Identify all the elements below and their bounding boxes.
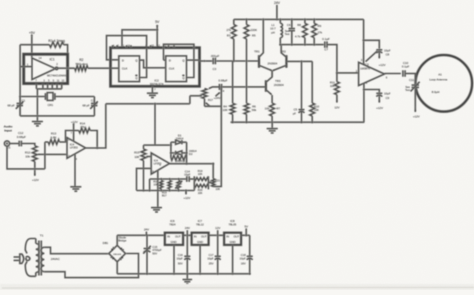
wire supply rail segment 1 [117, 234, 165, 237]
ground IC2 [147, 86, 158, 97]
scan edge artifacts [0, 284, 474, 290]
wire modulator bottom rail [137, 189, 195, 192]
wire IC5 output [170, 162, 215, 165]
wire supply rail segment 2 [183, 234, 192, 237]
wire audio bus to R17 wiper [190, 95, 202, 104]
wire secondary bottom loop [44, 254, 138, 278]
wire R15 bottom [142, 161, 145, 192]
resistor R1 4.7meg feedback [48, 39, 65, 47]
wire pin bus to ground [36, 89, 39, 121]
capacitor C14 10uF [184, 169, 191, 181]
capacitor C8 10uF [376, 48, 391, 67]
value label IC2 SN74LS74 [150, 79, 164, 86]
wire audio bus [106, 103, 190, 106]
diode D1 1N914 [171, 133, 187, 144]
diode D2 1N914 [171, 149, 197, 156]
capacitor C2 68pF trimmer [82, 97, 97, 116]
ic IC2 FF1 box [119, 56, 140, 82]
regulator IC8 78L05 [224, 219, 241, 245]
wire IC2 D2 entry [164, 56, 166, 60]
node +12V below R12 [32, 171, 39, 182]
ground oscillator [32, 122, 43, 126]
node 5V [244, 224, 248, 235]
transformer T1 secondary [41, 247, 60, 271]
wire C12 to R12 [21, 144, 34, 146]
wire bias riser [44, 142, 46, 169]
wire IC6 gnd [173, 245, 176, 275]
capacitor C15 4700uF [143, 235, 162, 273]
resistor R19 10K [162, 181, 171, 198]
ic IC2 box [111, 48, 200, 87]
wire R15 wiper to IC5 [146, 156, 151, 158]
ground common rail [267, 122, 278, 133]
transformer T1 core [39, 241, 41, 276]
wire IC2 Q2bar to D2 loop [164, 44, 194, 77]
resistor R2 560 ohm [75, 58, 88, 71]
pin 1 label IC1 [27, 63, 29, 67]
wire C7 to op-amp input [327, 45, 359, 75]
op-amp IC3 [359, 62, 385, 85]
node 12V [215, 226, 221, 235]
resistor R18 10K [153, 180, 163, 189]
ic IC2 FF2 box [166, 56, 187, 82]
pin 14 label IC1 [39, 56, 43, 60]
wire IC2 Q1bar internal [140, 48, 147, 78]
jack J1 [4, 141, 11, 150]
wire C3 to base divider [216, 60, 259, 63]
resistor R6 56k [244, 61, 257, 122]
capacitor C6 see text [285, 19, 295, 44]
resistor R3 27k [226, 19, 236, 61]
wire R1 top loop [20, 45, 68, 68]
wire IC1 input stub [20, 66, 32, 68]
wire branch to R15 [154, 104, 156, 145]
value label 2N3904 pair [267, 61, 278, 65]
wire IC2 output to C3 [187, 60, 213, 62]
wire supply bottom rail [117, 273, 251, 276]
wire IC2 CLK1 internal [111, 67, 119, 69]
label audio input [4, 125, 13, 133]
wire IC8 gnd [231, 245, 234, 275]
resistor R4 10K [223, 61, 235, 122]
wire modulator mid rail [150, 178, 195, 191]
arrow IC3 to C8 [366, 51, 378, 62]
node +12V antenna return [413, 107, 420, 119]
wire IC2 Q1bar to D1 loop [107, 36, 147, 60]
capacitor C3 .001uF [210, 54, 220, 71]
resistor R9 27k [312, 19, 323, 44]
plug AC [14, 254, 27, 263]
transistor TR2 2N3904 [273, 45, 287, 71]
wire TR2 base node [286, 60, 312, 63]
wire common rail [231, 121, 365, 124]
potentiometer R15 10K [134, 145, 146, 160]
inductor L1 10.7uH [270, 19, 282, 44]
wire R17 bottom to R21 [205, 86, 223, 187]
node 12V below R11 [334, 95, 340, 110]
wire C4 to TR3 base [222, 86, 266, 89]
wire IC1 output to R2 [58, 67, 75, 70]
node +5V supply for IC1 [29, 31, 36, 59]
resistor R14 27k feedback [66, 121, 99, 149]
wire R12 wiper [38, 154, 67, 156]
pin labels 7 3 5 9 11 13 [35, 79, 65, 82]
wire 24V rail [234, 18, 364, 21]
wire IC3 C8 branch [364, 40, 380, 48]
wire collector node rail [279, 43, 324, 46]
capacitor C9 10uF [376, 91, 391, 110]
node 5V supply for IC2 [155, 20, 160, 48]
pin labels IC4 [68, 132, 78, 161]
node +12V modulator [183, 191, 190, 200]
wire C4 left to R17 top [209, 87, 219, 89]
pin 2 label IC1 [56, 62, 58, 66]
wire C10 to antenna [384, 73, 386, 75]
resistor R5 220K [244, 19, 257, 61]
capacitor C18 10uF [239, 235, 252, 273]
pin labels IC3 [356, 59, 388, 85]
crystal CR1 [45, 93, 55, 108]
potentiometer R17 level [202, 89, 214, 102]
op-amp IC4 [67, 138, 86, 159]
wire IC3 pin4 down [363, 83, 366, 122]
wire IC2 preset loop [122, 29, 159, 48]
ground supply [183, 274, 193, 284]
wire crystal row [19, 95, 95, 98]
resistors R22 R23 parallel pair [194, 169, 208, 195]
resistor R7 100 [265, 103, 281, 122]
potentiometer R12 10k [25, 146, 37, 162]
wire IC1 unused pin stubs [36, 84, 61, 89]
node 24V supply [274, 1, 281, 21]
wire supply rail segment 3 [209, 234, 225, 237]
node 24V raw [144, 228, 150, 236]
regulator IC7 78L12 [192, 219, 209, 245]
resistor R8 4.7k [295, 19, 307, 44]
wire R15 top link [144, 144, 173, 147]
ground IC5 [151, 208, 162, 212]
ic IC1 box [24, 54, 68, 83]
node +12V for IC4 [71, 120, 78, 142]
wire IC2 Q1 to CLK2 [140, 60, 166, 68]
resistor R13 6.8K [45, 132, 67, 145]
wire bridge minus down [116, 262, 118, 274]
potentiometer R20 trimmer [175, 181, 182, 189]
transformer T1 primary [25, 233, 44, 276]
wire jack sleeve return [7, 146, 45, 169]
wire IC3 output [385, 73, 401, 75]
capacitor C5 4.7uF [293, 61, 305, 122]
wire supply rail segment 4 [241, 234, 250, 237]
node 24V regulated [185, 226, 191, 235]
node +24V label [214, 93, 221, 101]
wire IC5 minus input loop [137, 168, 152, 190]
potentiometer R21 10K [212, 164, 221, 192]
capacitor C4 0.68uF [218, 78, 228, 93]
wire IC2 spare pin stubs [113, 45, 194, 48]
wire feedback right vertical [185, 142, 188, 165]
wire feedback left vertical [170, 142, 173, 158]
wire jack to C12 [10, 143, 20, 145]
pin labels IC5 [152, 154, 172, 174]
capacitor C12 0.68uF [17, 131, 27, 146]
diode bridge DB1 [103, 235, 127, 261]
wire secondary top to bridge [44, 247, 109, 253]
capacitor C11 variable see text [405, 78, 419, 92]
wire oscillator bottom [20, 106, 94, 116]
wire IC7 gnd [199, 245, 202, 275]
wire C9 branch [364, 90, 379, 93]
wire 24V to IC3 Vplus [362, 19, 365, 64]
wire emitter junction to TR3 [271, 71, 273, 77]
antenna A1 loop [416, 55, 473, 112]
resistor R16 10K [171, 155, 187, 162]
capacitor C16 10uF [176, 235, 190, 273]
op-amp IC1 inverter triangle [32, 58, 58, 80]
wire IC1 input left vertical [19, 45, 21, 116]
wire R12 bottom [34, 162, 37, 172]
value label MC74HCU04AN [47, 73, 66, 77]
ground IC4 [70, 187, 81, 191]
capacitor C1 68pF trimmer [7, 97, 25, 109]
capacitor C7 0.1uF [322, 37, 330, 51]
wire R2 to IC2 clock [88, 67, 111, 69]
regulator IC6 7824 [165, 219, 183, 245]
pin numbers IC2 top [113, 45, 167, 47]
capacitor C10 0.1uF [402, 61, 410, 77]
wire bridge plus to rail [116, 235, 118, 245]
wire IC5 pin4 to ground [157, 170, 159, 207]
op-amp IC5 [151, 153, 169, 174]
wire IC1 pin bus [36, 88, 61, 90]
resistor R10 10K [310, 61, 320, 122]
wire IC4 pin4 to ground [74, 154, 76, 186]
transistor TR3 2N3904 [266, 71, 284, 103]
resistor R11 10K [330, 73, 339, 95]
capacitor C17 10uF [207, 235, 220, 273]
wire antenna tuning branch [405, 74, 416, 107]
transistor TR1 2N3904 [254, 19, 272, 70]
wire IC4 output [86, 104, 106, 148]
wire pair to R21 wiper [208, 182, 211, 183]
